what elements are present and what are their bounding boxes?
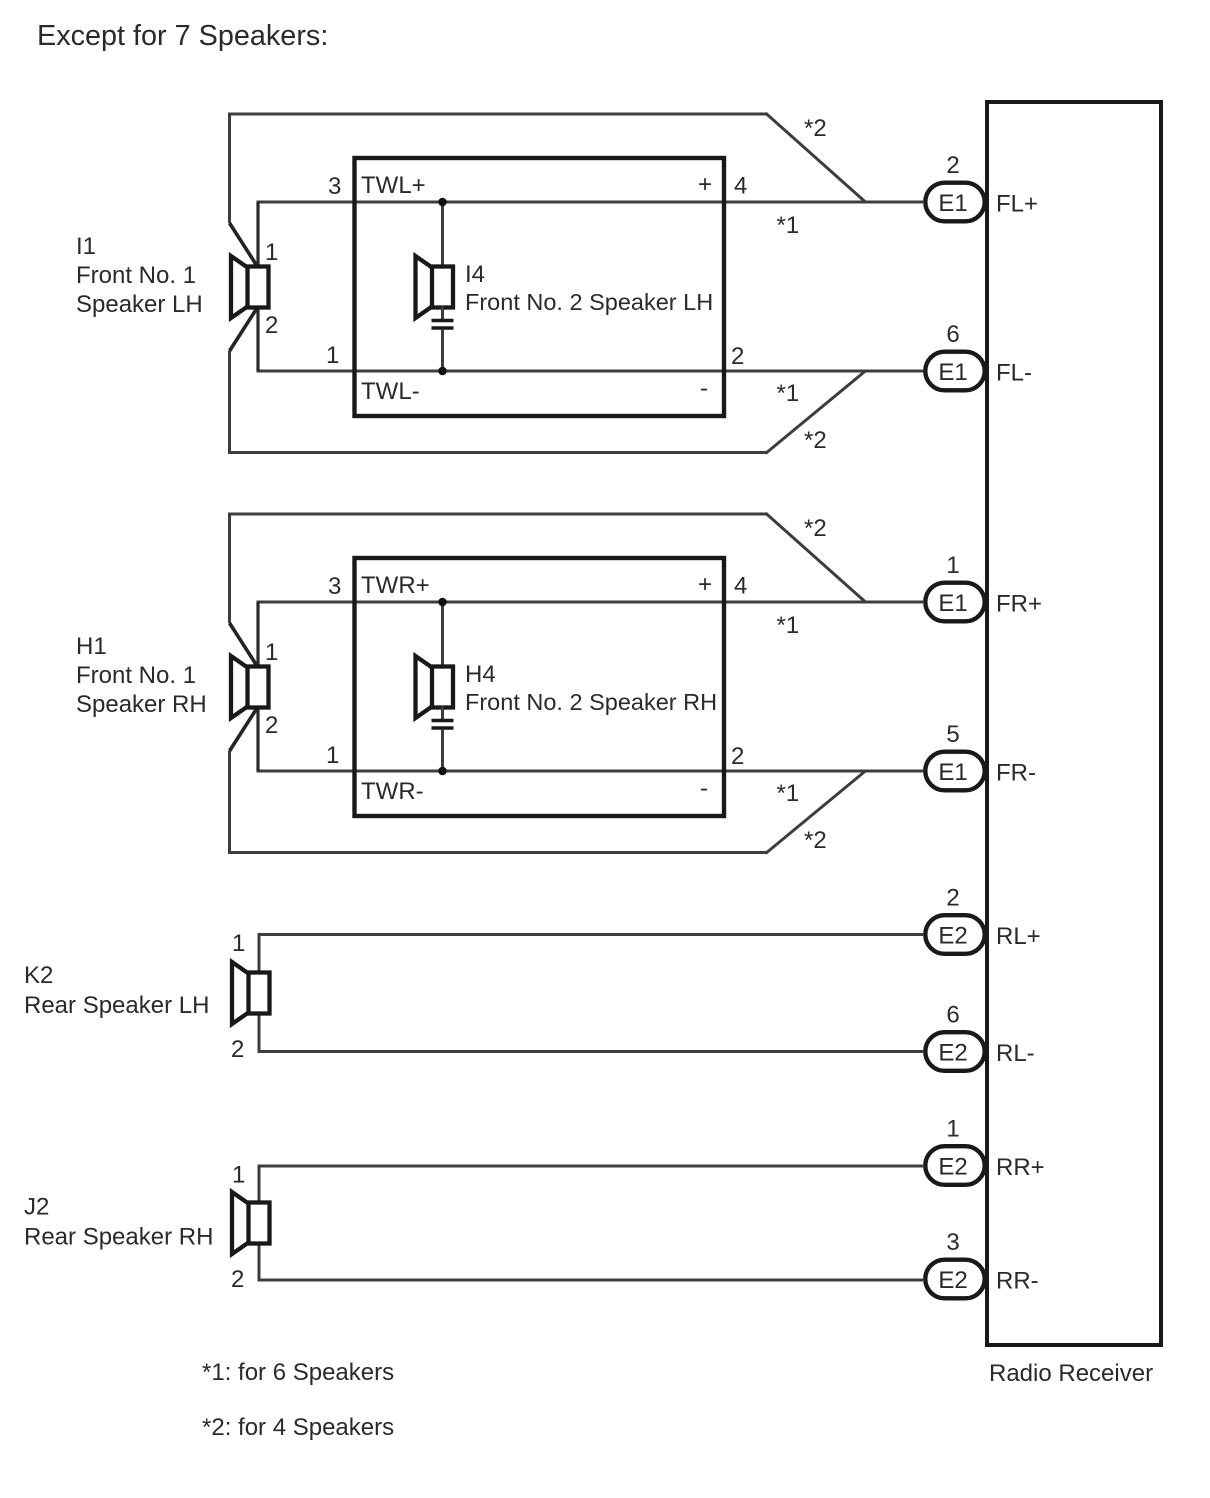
label net FR- [996, 760, 1036, 787]
wire Front No. 1 Speaker RH bypass loop bottom horizontal [228, 851, 767, 854]
label pin 1 (TWR- input) [326, 742, 339, 769]
wire Front No. 1 Speaker RH bypass loop left upper vertical [228, 513, 231, 624]
svg-text:FR-: FR- [996, 760, 1036, 787]
speaker I4 (Front No. 2 Speaker LH) [416, 256, 454, 318]
svg-text:2: 2 [265, 312, 278, 339]
label I1 designator and name [76, 233, 203, 318]
svg-text:J2: J2 [24, 1194, 49, 1221]
svg-text:Rear Speaker RH: Rear Speaker RH [24, 1224, 213, 1251]
footnote *1 [202, 1359, 394, 1386]
svg-text:Radio Receiver: Radio Receiver [989, 1360, 1153, 1387]
svg-text:2: 2 [731, 743, 744, 770]
svg-text:Front No. 1: Front No. 1 [76, 262, 196, 289]
wire J2 pin 1 vertical [258, 1165, 261, 1204]
radio receiver label [989, 1360, 1153, 1387]
speaker H4 (Front No. 2 Speaker RH) [416, 656, 454, 718]
label *2 note top [804, 115, 827, 142]
svg-text:*2: *2 [804, 427, 827, 454]
speaker I1 (Front No. 1 Speaker LH) [231, 256, 269, 318]
svg-text:E1: E1 [938, 190, 967, 217]
svg-text:TWL-: TWL- [361, 378, 420, 405]
svg-text:2: 2 [231, 1036, 244, 1063]
wire diagonal I1 pin 2 to bypass loop [230, 307, 259, 352]
svg-text:-: - [700, 375, 708, 402]
svg-text:2: 2 [946, 885, 959, 912]
wire diagonal I1 pin 1 to bypass loop [230, 223, 259, 268]
svg-text:*1: *1 [777, 380, 800, 407]
svg-text:1: 1 [265, 639, 278, 666]
svg-text:H4: H4 [465, 661, 496, 688]
crossover network box TWL [355, 158, 725, 416]
wire Front No. 1 Speaker LH bypass loop left upper vertical [228, 113, 231, 224]
svg-text:-: - [700, 775, 708, 802]
wire J2 pin 2 horizontal to E2 [258, 1279, 924, 1282]
wire Front No. 1 Speaker RH bypass loop top horizontal [228, 513, 767, 516]
label H4 designator and name [465, 661, 717, 715]
wire diagonal H1 pin 1 to bypass loop [230, 623, 259, 668]
label pin 3 (TWR+ input) [328, 573, 341, 600]
wire H1 pin 2 vertical stub [256, 707, 259, 772]
svg-text:4: 4 [734, 573, 747, 600]
svg-text:K2: K2 [24, 962, 53, 989]
label - polarity [700, 375, 708, 402]
wire K2 pin 2 vertical [258, 1013, 261, 1054]
crossover network box TWR [355, 558, 725, 816]
label K2 designator and name [24, 962, 209, 1019]
label net RL- [996, 1040, 1035, 1067]
svg-text:1: 1 [326, 742, 339, 769]
connector E1 pin 6 (FL-) [925, 352, 984, 391]
svg-text:2: 2 [731, 343, 744, 370]
wire capacitor to TWR- wire [441, 729, 444, 771]
label net FL- [996, 360, 1032, 387]
wire I1 pin 1 vertical stub [256, 202, 259, 268]
wire K2 pin 2 horizontal to E2 [258, 1050, 924, 1053]
svg-text:1: 1 [946, 552, 959, 579]
svg-text:I1: I1 [76, 233, 96, 260]
label + polarity [698, 171, 712, 198]
label pin 4 (TWL+ output) [734, 173, 747, 200]
wire I4 branch upper vertical [441, 202, 444, 268]
label J2 pin 1 [232, 1162, 245, 1189]
wire TWL- horizontal (I1 pin 2 to E1) [257, 370, 924, 373]
label TWL+ terminal [361, 172, 426, 199]
label *1 note bottom [777, 380, 800, 407]
label pin number 6 above connector E1 pin 6 (FL-) [946, 321, 959, 348]
junction node TWL- / I4 [438, 367, 447, 376]
svg-text:*1: for 6 Speakers: *1: for 6 Speakers [202, 1359, 394, 1386]
svg-text:2: 2 [946, 152, 959, 179]
svg-text:Front No. 2 Speaker RH: Front No. 2 Speaker RH [465, 689, 717, 715]
wire Front No. 1 Speaker LH bypass loop top horizontal [228, 113, 767, 116]
svg-text:FL+: FL+ [996, 191, 1038, 218]
wire TWR+ horizontal (H1 pin 1 to E1) [257, 601, 924, 604]
wire K2 pin 1 vertical [258, 933, 261, 974]
connector E2 pin 1 (RR+) [925, 1146, 984, 1185]
wire H1 pin 1 vertical stub [256, 602, 259, 668]
connector E2 pin 3 (RR-) [925, 1260, 984, 1299]
wire I1 pin 2 vertical stub [256, 307, 259, 372]
svg-text:5: 5 [946, 721, 959, 748]
connector E2 pin 2 (RL+) [925, 915, 984, 954]
label I4 designator and name [465, 261, 713, 315]
label pin number 1 above connector E1 pin 1 (FR+) [946, 552, 959, 579]
svg-text:RL+: RL+ [996, 923, 1041, 950]
label H1 designator and name [76, 633, 207, 718]
wire H4 to capacitor [441, 707, 444, 721]
wire Front No. 1 Speaker LH bypass diagonal to TWL+ wire (*2 path) [766, 113, 867, 203]
svg-text:E1: E1 [938, 590, 967, 617]
label net RR+ [996, 1154, 1045, 1181]
svg-text:1: 1 [326, 342, 339, 369]
label - polarity [700, 775, 708, 802]
label *2 note bottom [804, 427, 827, 454]
connector E1 pin 1 (FR+) [925, 583, 984, 622]
svg-text:4: 4 [734, 173, 747, 200]
wire Front No. 1 Speaker RH bypass diagonal to TWR+ wire (*2 path) [766, 513, 867, 603]
svg-text:Speaker LH: Speaker LH [76, 291, 203, 318]
label *1 note bottom [777, 780, 800, 807]
label net FL+ [996, 191, 1038, 218]
svg-text:*2: *2 [804, 115, 827, 142]
wire J2 pin 1 horizontal to E2 [258, 1165, 924, 1168]
svg-text:2: 2 [265, 712, 278, 739]
wire J2 pin 2 vertical [258, 1243, 261, 1282]
label pin 3 (TWL+ input) [328, 173, 341, 200]
label H1 pin 1 [265, 639, 278, 666]
svg-text:TWR+: TWR+ [361, 572, 430, 599]
label net FR+ [996, 591, 1042, 618]
label net RR- [996, 1268, 1039, 1295]
svg-text:Rear Speaker LH: Rear Speaker LH [24, 992, 209, 1019]
svg-text:*1: *1 [777, 780, 800, 807]
svg-text:3: 3 [946, 1229, 959, 1256]
svg-text:+: + [698, 571, 712, 598]
junction node TWR- / H4 [438, 767, 447, 776]
svg-text:6: 6 [946, 1002, 959, 1029]
label pin number 2 above connector E1 pin 2 (FL+) [946, 152, 959, 179]
svg-text:Speaker RH: Speaker RH [76, 691, 207, 718]
title text [37, 20, 328, 52]
junction node TWL+ / I4 [438, 198, 447, 207]
wire Front No. 1 Speaker LH bypass loop left lower vertical [228, 351, 231, 454]
speaker J2 (Rear Speaker RH) [232, 1192, 270, 1254]
wire TWL+ horizontal (I1 pin 1 to E1) [257, 201, 924, 204]
label pin number 5 above connector E1 pin 5 (FR-) [946, 721, 959, 748]
svg-text:RR-: RR- [996, 1268, 1039, 1295]
radio receiver box [987, 102, 1161, 1345]
label I1 pin 2 [265, 312, 278, 339]
svg-text:Front No. 2 Speaker LH: Front No. 2 Speaker LH [465, 289, 713, 315]
svg-text:E2: E2 [938, 1154, 967, 1181]
label TWL- terminal [361, 378, 420, 405]
svg-text:6: 6 [946, 321, 959, 348]
connector E2 pin 6 (RL-) [925, 1032, 984, 1071]
junction node TWR+ / H4 [438, 598, 447, 607]
label TWR- terminal [361, 778, 424, 805]
wire capacitor to TWL- wire [441, 329, 444, 371]
svg-text:RL-: RL- [996, 1040, 1035, 1067]
svg-text:3: 3 [328, 173, 341, 200]
svg-text:E2: E2 [938, 1040, 967, 1067]
wire Front No. 1 Speaker LH bypass diagonal to TWL- wire (*2 path) [766, 371, 867, 454]
label TWR+ terminal [361, 572, 430, 599]
wire H4 branch upper vertical [441, 602, 444, 668]
label *1 note top [777, 212, 800, 239]
label pin 4 (TWR+ output) [734, 573, 747, 600]
svg-text:TWL+: TWL+ [361, 172, 426, 199]
label pin number 6 above connector E2 pin 6 (RL-) [946, 1002, 959, 1029]
svg-text:E1: E1 [938, 359, 967, 386]
label K2 pin 1 [232, 930, 245, 957]
label net RL+ [996, 923, 1041, 950]
label + polarity [698, 571, 712, 598]
svg-text:1: 1 [265, 239, 278, 266]
label pin number 1 above connector E2 pin 1 (RR+) [946, 1116, 959, 1143]
svg-text:1: 1 [232, 1162, 245, 1189]
label I1 pin 1 [265, 239, 278, 266]
wire TWR- horizontal (H1 pin 2 to E1) [257, 770, 924, 773]
svg-text:*2: *2 [804, 827, 827, 854]
svg-text:1: 1 [232, 930, 245, 957]
svg-text:*2: for 4 Speakers: *2: for 4 Speakers [202, 1414, 394, 1441]
capacitor H4 crossover [432, 721, 454, 729]
label pin 2 (TWR- output) [731, 743, 744, 770]
connector E1 pin 2 (FL+) [925, 183, 984, 222]
label J2 pin 2 [231, 1266, 244, 1293]
wire diagonal H1 pin 2 to bypass loop [230, 707, 259, 752]
svg-text:*1: *1 [777, 212, 800, 239]
label pin 1 (TWL- input) [326, 342, 339, 369]
label J2 designator and name [24, 1194, 213, 1251]
speaker H1 (Front No. 1 Speaker RH) [231, 656, 269, 718]
wire Front No. 1 Speaker LH bypass loop bottom horizontal [228, 451, 767, 454]
wire Front No. 1 Speaker RH bypass loop left lower vertical [228, 751, 231, 854]
speaker K2 (Rear Speaker LH) [232, 962, 270, 1024]
svg-text:E1: E1 [938, 759, 967, 786]
label *2 note bottom [804, 827, 827, 854]
wire Front No. 1 Speaker RH bypass diagonal to TWR- wire (*2 path) [766, 771, 867, 854]
svg-text:Front No. 1: Front No. 1 [76, 662, 196, 689]
svg-text:*2: *2 [804, 515, 827, 542]
label pin 2 (TWL- output) [731, 343, 744, 370]
connector E1 pin 5 (FR-) [925, 752, 984, 791]
svg-text:FL-: FL- [996, 360, 1032, 387]
svg-text:3: 3 [328, 573, 341, 600]
label *2 note top [804, 515, 827, 542]
svg-text:TWR-: TWR- [361, 778, 424, 805]
svg-text:E2: E2 [938, 1267, 967, 1294]
svg-text:1: 1 [946, 1116, 959, 1143]
label H1 pin 2 [265, 712, 278, 739]
svg-text:+: + [698, 171, 712, 198]
wire K2 pin 1 horizontal to E2 [258, 933, 924, 936]
svg-text:E2: E2 [938, 923, 967, 950]
svg-text:2: 2 [231, 1266, 244, 1293]
svg-text:I4: I4 [465, 261, 485, 288]
label K2 pin 2 [231, 1036, 244, 1063]
label *1 note top [777, 612, 800, 639]
capacitor I4 crossover [432, 321, 454, 329]
svg-text:H1: H1 [76, 633, 107, 660]
footnote *2 [202, 1414, 394, 1441]
svg-text:Except for 7 Speakers:: Except for 7 Speakers: [37, 20, 328, 52]
label pin number 2 above connector E2 pin 2 (RL+) [946, 885, 959, 912]
wire I4 to capacitor [441, 307, 444, 321]
svg-text:FR+: FR+ [996, 591, 1042, 618]
svg-text:RR+: RR+ [996, 1154, 1045, 1181]
label pin number 3 above connector E2 pin 3 (RR-) [946, 1229, 959, 1256]
svg-text:*1: *1 [777, 612, 800, 639]
